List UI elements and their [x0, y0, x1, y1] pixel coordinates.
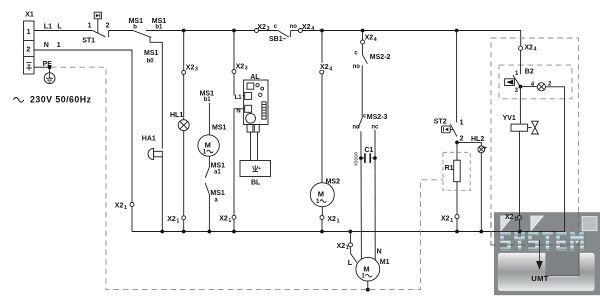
wire MS2-2 to MS2-3: [361, 65, 363, 118]
motor M1: [356, 257, 380, 281]
svg-text:2: 2: [460, 135, 464, 142]
connector X2_3 HL1: [182, 70, 186, 74]
svg-text:1: 1: [450, 218, 453, 224]
svg-text:230V 50/60Hz: 230V 50/60Hz: [30, 95, 92, 105]
connector X2_1 MS2: [320, 216, 324, 220]
svg-text:1: 1: [27, 29, 31, 36]
label MS1 b: [129, 18, 144, 30]
label MS1 b0: [144, 50, 159, 65]
node bus M1: [349, 230, 353, 234]
svg-text:L1: L1: [44, 23, 52, 30]
node C1 right: [373, 156, 377, 160]
svg-text:X2: X2: [505, 214, 514, 221]
svg-text:X2: X2: [167, 216, 176, 223]
label X2 4 B2: [524, 44, 536, 52]
svg-text:B2: B2: [525, 69, 534, 76]
dashed enclosure fragments over watermark: [491, 212, 579, 251]
svg-text:X2: X2: [337, 243, 346, 250]
node bus R1: [455, 230, 459, 234]
svg-text:X2: X2: [302, 24, 311, 31]
svg-text:HL2: HL2: [471, 136, 484, 143]
wire MS1 a to bus: [208, 195, 210, 232]
wire YV1 branch under watermark: [519, 212, 521, 215]
svg-text:BL: BL: [251, 179, 261, 186]
label X2 4 MS2: [319, 63, 336, 73]
wire MS2 to X2_1: [321, 207, 323, 216]
label MS1 a: [210, 190, 225, 203]
wire N rail lower: [131, 207, 133, 232]
label X2 3 HL1: [186, 64, 198, 72]
svg-text:3: 3: [245, 66, 248, 72]
wire AL to BL right: [257, 132, 259, 160]
svg-text:1: 1: [361, 273, 365, 280]
watermark arrow: [536, 240, 543, 270]
chassis dashed outline: [51, 67, 443, 289]
label N AL: [236, 106, 243, 114]
bottom bus wire: [132, 231, 565, 233]
wire PE: [34, 66, 50, 68]
node bus HA1: [160, 230, 164, 234]
label X2 3 AL: [236, 63, 248, 71]
wire right column from top bus: [456, 31, 458, 123]
wire X2_1 R1 to bus: [456, 219, 458, 232]
svg-text:3: 3: [267, 26, 270, 32]
label X2 1 YV1: [505, 214, 517, 222]
svg-text:X2: X2: [219, 216, 228, 223]
label L1 AL: [235, 93, 243, 101]
svg-text:X2: X2: [327, 216, 336, 223]
watermark right shape: [582, 217, 597, 231]
node top bus MS2-2: [361, 29, 365, 33]
solenoid valve YV1: [511, 121, 538, 134]
svg-text:MS2-2: MS2-2: [370, 54, 391, 61]
resistor R1: [454, 142, 461, 214]
svg-text:MS1: MS1: [212, 125, 227, 132]
connector X2_3 AL: [232, 70, 236, 74]
svg-text:N: N: [44, 42, 49, 49]
connector X2_1 M1: [349, 243, 353, 247]
svg-text:4: 4: [311, 26, 314, 32]
label X2 1 AL: [219, 216, 231, 224]
svg-text:1: 1: [228, 218, 231, 224]
wire X2_1 to M1 L: [351, 247, 357, 263]
connector X2_1 AL: [232, 215, 236, 219]
wire HL2 to bus: [480, 153, 482, 232]
wire B2 to YV1: [519, 87, 521, 125]
svg-text:ST1: ST1: [82, 38, 95, 45]
wire SB1 to X2_4: [291, 30, 299, 32]
connector X2_4 MS2: [320, 70, 324, 74]
wire MS2 branch top: [321, 31, 323, 71]
svg-text:M1: M1: [380, 259, 390, 266]
svg-text:AL: AL: [250, 74, 260, 81]
wire ST2 to HL2: [457, 142, 481, 146]
wire X2_4 to MS2 motor: [321, 74, 323, 183]
lamp HL2: [478, 146, 487, 153]
switch MS1 a: [205, 183, 209, 195]
enclosure dashed box B2: [499, 65, 572, 99]
label X2 4 bus: [302, 24, 314, 32]
connector X2_1 HL1: [182, 216, 186, 220]
label X2 4 MS2-2: [365, 35, 377, 43]
wire X2_3 to AL L1: [234, 74, 245, 96]
svg-text:1: 1: [337, 218, 340, 224]
wire X2_4 to contact: [361, 44, 363, 55]
svg-text:MS2: MS2: [326, 178, 341, 185]
wire top bus right: [303, 31, 521, 47]
wire YV1 to X2_1: [519, 131, 521, 215]
wire HL1 branch upper: [183, 31, 185, 71]
svg-text:N: N: [377, 249, 382, 256]
wire bus under watermark: [494, 231, 565, 233]
label X2 1 M1: [337, 243, 349, 251]
wire bus to X2_1 M1: [349, 232, 351, 243]
svg-text:N: N: [236, 109, 240, 115]
label MS1 b1: [152, 18, 167, 30]
svg-text:a1: a1: [214, 169, 221, 175]
wire HA1 to bus: [161, 157, 163, 232]
svg-text:SB1–: SB1–: [269, 36, 287, 43]
wire X2_1 MS2 to bus: [321, 220, 323, 232]
svg-text:1: 1: [346, 245, 349, 251]
wire X2_1 YV1 to bus: [518, 220, 521, 232]
svg-text:MS1: MS1: [144, 50, 159, 57]
label X2 1 MS2: [327, 216, 339, 224]
svg-text:no: no: [290, 24, 298, 30]
node ST2 out: [455, 141, 459, 145]
terminal block X1: [24, 21, 35, 74]
node bus HL2: [479, 230, 483, 234]
watermark machine slot: [545, 253, 579, 277]
svg-text:1: 1: [460, 119, 464, 126]
igniter AL: [244, 80, 268, 132]
svg-text:no: no: [353, 64, 361, 70]
svg-text:2: 2: [26, 46, 30, 53]
R1 dashed enclosure: [443, 152, 470, 190]
svg-text:ST2: ST2: [434, 118, 447, 125]
svg-text:X1: X1: [25, 11, 34, 18]
svg-text:4: 4: [534, 47, 537, 53]
enclosure dashed box right: [491, 38, 579, 245]
node C1 left: [359, 156, 363, 160]
svg-text:nc: nc: [371, 125, 379, 131]
svg-text:MS1: MS1: [211, 162, 226, 169]
node bus MS1: [208, 230, 212, 234]
watermark background: [494, 212, 600, 295]
svg-text:b1: b1: [204, 97, 212, 103]
connector X2_1 N rail: [130, 203, 134, 207]
node M1 chassis: [366, 288, 370, 292]
label X2 1 N rail: [115, 202, 127, 210]
label X2 3 bus: [257, 24, 269, 32]
wire MS2-2 c stub: [362, 31, 364, 41]
svg-text:L1: L1: [235, 95, 243, 101]
node top bus HL1: [182, 29, 186, 33]
ground symbol: [44, 67, 55, 83]
svg-text:X2: X2: [115, 202, 124, 209]
label X2 1 HL1: [167, 216, 179, 224]
switch MS1 b: [133, 31, 151, 38]
node PE junction: [48, 65, 52, 69]
svg-text:HL1: HL1: [170, 112, 183, 119]
svg-text:2: 2: [106, 22, 110, 29]
motor MS2: [310, 183, 334, 207]
switch ST2: [442, 124, 457, 137]
switch SB1: [278, 31, 291, 38]
svg-text:1: 1: [124, 205, 127, 211]
wire X2_4 to B2 pin1: [520, 50, 522, 74]
svg-text:X2: X2: [365, 35, 374, 42]
svg-text:1: 1: [88, 22, 92, 29]
wire top bus segment b1: [146, 30, 254, 32]
svg-text:X2: X2: [257, 24, 266, 31]
svg-text:X2: X2: [186, 64, 195, 71]
capacitor C1: [361, 153, 375, 163]
wire MS1 b0 branch: [150, 37, 162, 148]
connector X2_1 R1: [455, 215, 459, 219]
svg-text:X2: X2: [441, 215, 450, 222]
wire X2_1 AL to bus: [233, 219, 235, 231]
svg-text:R1: R1: [445, 165, 454, 172]
node top bus AL: [232, 29, 236, 33]
switch MS1 a1: [205, 167, 209, 178]
lamp B2: [537, 83, 545, 91]
svg-text:b0: b0: [147, 58, 155, 64]
connector X2_4 MS2-2: [361, 40, 365, 44]
label MS1 a1: [211, 162, 226, 175]
wire L from X1 to ST1: [34, 30, 92, 32]
node top bus ST2: [455, 29, 459, 33]
connector X2_1 YV1: [517, 216, 521, 220]
svg-text:rosso: rosso: [354, 152, 360, 166]
connector X2_4 B2: [519, 46, 523, 50]
svg-text:C1: C1: [364, 147, 373, 154]
wire MS1 motor down: [208, 156, 210, 167]
wire AL branch top: [233, 31, 235, 70]
svg-text:1: 1: [203, 148, 207, 155]
switch ST1: [92, 12, 108, 37]
svg-text:YV1: YV1: [503, 115, 516, 122]
wire MS2-3 nc branch: [374, 130, 376, 260]
flame switch B2: [505, 75, 521, 87]
burner BL: [240, 161, 271, 177]
svg-text:MS2-3: MS2-3: [367, 114, 388, 121]
wire ST1 to MS1b: [109, 30, 133, 32]
wire M1 case to chassis: [367, 281, 369, 290]
watermark triangle 2: [531, 216, 543, 231]
node bus HL1: [182, 230, 186, 234]
svg-text:X2: X2: [236, 63, 245, 70]
node bus AL: [232, 230, 236, 234]
svg-text:3: 3: [195, 67, 198, 73]
node bus YV1: [518, 230, 522, 234]
wire AL to BL left: [250, 132, 252, 160]
svg-text:b: b: [133, 25, 137, 31]
wire B2 pin3 to lamp: [520, 86, 537, 88]
svg-text:b1: b1: [155, 25, 163, 31]
wire MS2-3 no branch: [360, 131, 363, 259]
wire B2 lamp return: [546, 87, 565, 232]
wire HL1 to X2_1: [183, 131, 185, 216]
node B2 pin3: [519, 85, 523, 89]
switch MS2-3: [358, 118, 362, 129]
svg-text:1: 1: [514, 216, 517, 222]
label MS1 b1 branch: [200, 90, 215, 103]
svg-text:X2: X2: [524, 44, 533, 51]
svg-text:1: 1: [57, 42, 61, 49]
svg-text:X2: X2: [320, 64, 329, 71]
wire X2_3 to HL1: [183, 74, 185, 119]
svg-text:UMT: UMT: [531, 274, 549, 283]
node top bus MS2: [320, 29, 324, 33]
svg-text:4: 4: [329, 66, 332, 72]
connector X2_4 bus: [298, 29, 302, 33]
label X2 1 R1: [441, 215, 453, 223]
wire AL N return: [234, 109, 245, 215]
svg-text:HA1: HA1: [142, 136, 156, 143]
svg-text:L: L: [348, 260, 353, 267]
connector X2_3 bus: [255, 29, 259, 33]
svg-text:MS1: MS1: [210, 190, 225, 197]
wire N from X1: [34, 50, 132, 202]
watermark triangle 1: [501, 216, 513, 231]
wire B2 return under watermark: [564, 212, 566, 231]
node bus MS2: [320, 230, 324, 234]
wire X2_1 to bus HL1: [183, 220, 185, 232]
lamp HL1: [178, 120, 189, 131]
watermark machine box: [498, 253, 596, 292]
svg-text:4: 4: [374, 37, 377, 43]
svg-text:1: 1: [316, 198, 320, 205]
wire bus to SB1: [259, 30, 278, 32]
svg-text:1: 1: [176, 218, 179, 224]
svg-text:L: L: [57, 23, 62, 30]
wire MS1 b1 stub: [208, 103, 210, 135]
switch MS2-2: [362, 55, 367, 64]
watermark SYSTEM text: [500, 232, 584, 251]
buzzer HA1: [148, 148, 162, 159]
label 230V 50/60Hz: [14, 95, 92, 105]
motor MS1: [198, 135, 219, 156]
svg-text:no: no: [352, 125, 360, 131]
